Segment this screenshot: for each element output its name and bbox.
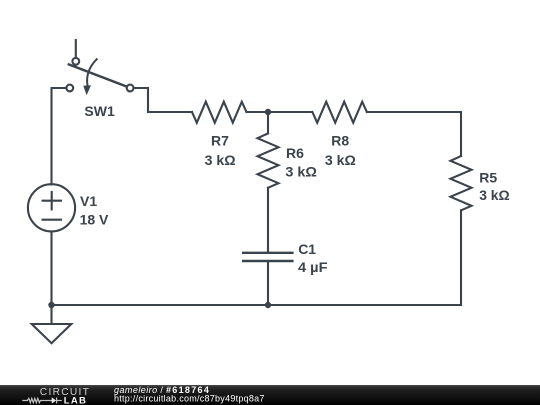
resistor R8 — [312, 102, 367, 123]
voltage source V1 — [28, 184, 75, 231]
resistor R5 — [451, 156, 472, 210]
svg-text:R6: R6 — [286, 145, 304, 161]
svg-text:3 kΩ: 3 kΩ — [205, 152, 236, 168]
svg-text:4 µF: 4 µF — [298, 259, 328, 275]
ground — [32, 305, 72, 343]
CircuitLab logo — [22, 387, 90, 405]
wire: R8 right to right branch top — [367, 112, 461, 156]
svg-text:R5: R5 — [479, 169, 497, 185]
wire: SW1 top throw stub — [75, 40, 77, 58]
resistor R7 — [192, 102, 247, 123]
wire: SW1 left terminal to V1 positive — [52, 88, 67, 185]
wire: R7 right to node A — [247, 111, 313, 113]
svg-text:C1: C1 — [298, 241, 316, 257]
junction: C1 at bottom rail — [265, 302, 271, 308]
svg-text:LAB: LAB — [64, 395, 87, 405]
wire: SW1 right terminal to R7 left — [134, 88, 193, 112]
wire: node A down to R6 top — [267, 112, 269, 133]
svg-text:R8: R8 — [331, 133, 349, 149]
wire: R5 bottom to bottom rail — [460, 210, 462, 305]
capacitor C1 — [243, 253, 292, 261]
wire: C1 bottom to bottom rail — [267, 261, 269, 305]
wire: bottom rail — [52, 304, 462, 306]
svg-text:http://circuitlab.com/c87by49t: http://circuitlab.com/c87by49tpq8a7 — [114, 394, 265, 404]
svg-text:SW1: SW1 — [84, 103, 115, 119]
junction: node A (R7-R6-R8) — [265, 109, 271, 115]
svg-text:3 kΩ: 3 kΩ — [325, 152, 356, 168]
wire: R6 bottom to C1 top — [267, 188, 269, 253]
svg-text:3 kΩ: 3 kΩ — [479, 187, 510, 203]
junction: ground node — [48, 302, 54, 308]
svg-text:3 kΩ: 3 kΩ — [285, 163, 317, 179]
switch SW1 — [66, 58, 133, 95]
svg-text:V1: V1 — [80, 193, 97, 209]
footer bar — [0, 385, 540, 405]
svg-text:R7: R7 — [211, 133, 229, 149]
resistor R6 — [258, 133, 279, 187]
wire: V1 negative to ground node — [50, 232, 52, 306]
svg-text:18 V: 18 V — [80, 212, 109, 228]
